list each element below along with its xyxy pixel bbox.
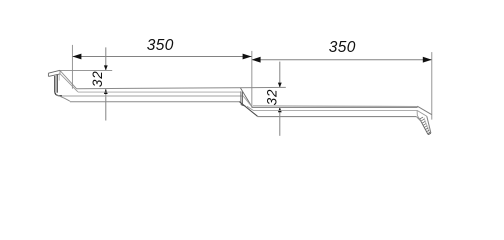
step diagonal D2 from B [243, 96, 252, 107]
right end top edge receding diagonal from A2 [417, 106, 431, 114]
diagonal from hem top to line T1 [60, 71, 77, 89]
dimension 32 right: lower line with up arrow [278, 107, 282, 136]
extension line for 32 left (hook top edge) [60, 69, 112, 71]
extension line middle [251, 51, 253, 107]
dimension line 350 right [252, 57, 432, 63]
svg-text:32: 32 [90, 70, 105, 87]
right end hem hatch ticks [420, 117, 431, 134]
line A2: piece2 [252, 106, 418, 108]
line T1: piece1 top back edge + extension to dim 32 right [77, 87, 286, 88]
diagonal from hem bottom to line A [60, 74, 78, 92]
svg-text:350: 350 [329, 39, 356, 56]
step vertical leg right [241, 92, 243, 104]
hook leg left edge [54, 76, 56, 92]
line T2: piece2 top back edge (faint, near A2) [253, 105, 418, 108]
line C2: piece2 front bottom edge [258, 116, 417, 118]
hook bottom fold [55, 92, 62, 96]
right end second receding diagonal from B2 [417, 110, 427, 116]
hook hem left cap [47, 73, 49, 76]
line B: piece1 [62, 95, 243, 97]
line B2: piece2 [253, 110, 417, 112]
right end bottom tip cap [428, 133, 431, 135]
dimension 32 right: upper line with down arrow [278, 62, 282, 88]
dimension 32 left: upper line with down arrow [104, 47, 108, 70]
hook hem right cap [59, 70, 61, 74]
line A: piece1 [78, 91, 241, 93]
hook leg right edge [56, 75, 58, 93]
dimension line 350 left [72, 54, 251, 60]
line C: piece1 front bottom edge [70, 101, 239, 103]
extension line right end [431, 52, 433, 120]
hook under-fold diagonal to line C [56, 95, 70, 102]
step bottom fold [241, 104, 246, 106]
svg-text:350: 350 [147, 37, 174, 54]
hook hem top edge [48, 70, 60, 73]
step diagonal D3 from C to C2 [239, 102, 257, 117]
extension line left end [71, 45, 73, 89]
right end hem band right edge [427, 116, 431, 133]
svg-text:32: 32 [265, 89, 280, 106]
hook hem bottom edge [49, 74, 61, 77]
right end B2 drop vertical [417, 110, 420, 119]
right end hem band left edge [420, 119, 428, 134]
step vertical leg left [240, 91, 242, 103]
right end hem inner line [424, 118, 430, 134]
right end short diagonal from C2 [416, 116, 421, 121]
dimension 32 left: lower line with up arrow [104, 89, 108, 121]
step diagonal to B2 [247, 106, 253, 110]
step diagonal D1 from T1 [241, 88, 253, 107]
hook leg back edge (faint) [58, 74, 60, 80]
